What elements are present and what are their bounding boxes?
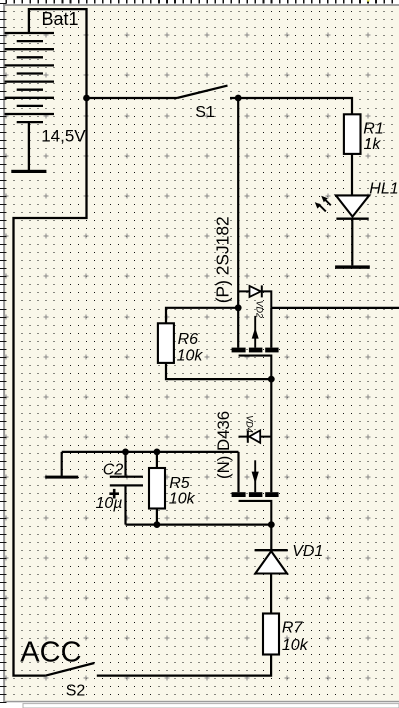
switch S1 blade — [177, 86, 228, 98]
transistor VT2 N-MOSFET — [232, 452, 279, 525]
body diode VD2 — [238, 285, 271, 308]
svg-text:ACC: ACC — [20, 636, 81, 668]
capacitor C2 — [109, 452, 143, 525]
wire node A down to S2 — [14, 98, 87, 676]
svg-text:VD2: VD2 — [254, 301, 264, 319]
LED HL1 — [315, 195, 369, 218]
svg-text:R5: R5 — [169, 475, 190, 492]
svg-text:VD1: VD1 — [292, 543, 323, 560]
ground under HL1 — [335, 265, 370, 268]
wire node A to switch S1 — [87, 97, 178, 99]
node G junction dot (gate N / VD1) — [268, 521, 275, 528]
svg-text:10k: 10k — [282, 637, 309, 654]
resistor R6 — [158, 323, 174, 363]
resistor R5 — [149, 452, 165, 525]
node E junction dot (C2 top) — [122, 449, 129, 456]
svg-text:10k: 10k — [169, 491, 196, 508]
svg-text:14,5V: 14,5V — [41, 127, 86, 146]
svg-text:1k: 1k — [364, 136, 382, 153]
svg-text:C2: C2 — [103, 462, 124, 479]
svg-text:S2: S2 — [66, 683, 86, 700]
wire bottom rail C2 to node G — [126, 523, 272, 525]
node B junction dot (S1/R1/gate wire) — [235, 95, 242, 102]
wire node G to VD1 cathode — [270, 525, 272, 551]
svg-text:HL1: HL1 — [369, 180, 398, 197]
resistor R7 — [263, 614, 279, 655]
node C junction dot (P source node) — [235, 304, 242, 311]
svg-text:10µ: 10µ — [96, 495, 123, 512]
wire P drain output to right edge — [271, 307, 399, 309]
svg-text:VD4: VD4 — [244, 415, 254, 433]
battery Bat1 — [5, 33, 55, 171]
wire battery positive to node A — [29, 9, 87, 98]
wire node D to N-MOSFET drain — [270, 379, 272, 492]
svg-text:R7: R7 — [282, 619, 304, 636]
svg-text:S1: S1 — [195, 104, 215, 121]
wire ground rail to N source — [62, 451, 239, 453]
resistor R1 — [344, 114, 361, 154]
wire R7 to S2 — [97, 655, 271, 676]
svg-text:Bat1: Bat1 — [42, 9, 79, 29]
node D junction dot (P gate / N drain) — [268, 376, 275, 383]
body diode VD4 — [239, 430, 272, 442]
ground symbol at rail — [45, 452, 78, 479]
svg-text:(N) D436: (N) D436 — [214, 411, 233, 479]
wire node B to P-MOSFET source — [237, 98, 239, 308]
svg-text:(P) 2SJ182: (P) 2SJ182 — [213, 216, 233, 303]
svg-text:10k: 10k — [177, 348, 204, 365]
node F junction dot (R5 top) — [154, 449, 161, 456]
wire HL1 to ground — [351, 219, 353, 266]
wire R6 bottom to gate node D — [166, 363, 271, 379]
ground battery minus — [11, 170, 46, 173]
node A junction dot — [83, 95, 90, 102]
diode VD1 — [255, 550, 288, 573]
wire S1 to R1 — [230, 98, 352, 114]
node H junction dot (R5 bottom) — [154, 521, 161, 528]
transistor VT1 P-MOSFET — [232, 308, 279, 379]
switch S2 blade — [46, 663, 95, 676]
wire VD1 anode to R7 — [270, 574, 272, 614]
svg-text:R6: R6 — [178, 331, 199, 348]
wire R6 top to node C — [166, 308, 238, 324]
wire R1 to HL1 — [351, 154, 353, 197]
